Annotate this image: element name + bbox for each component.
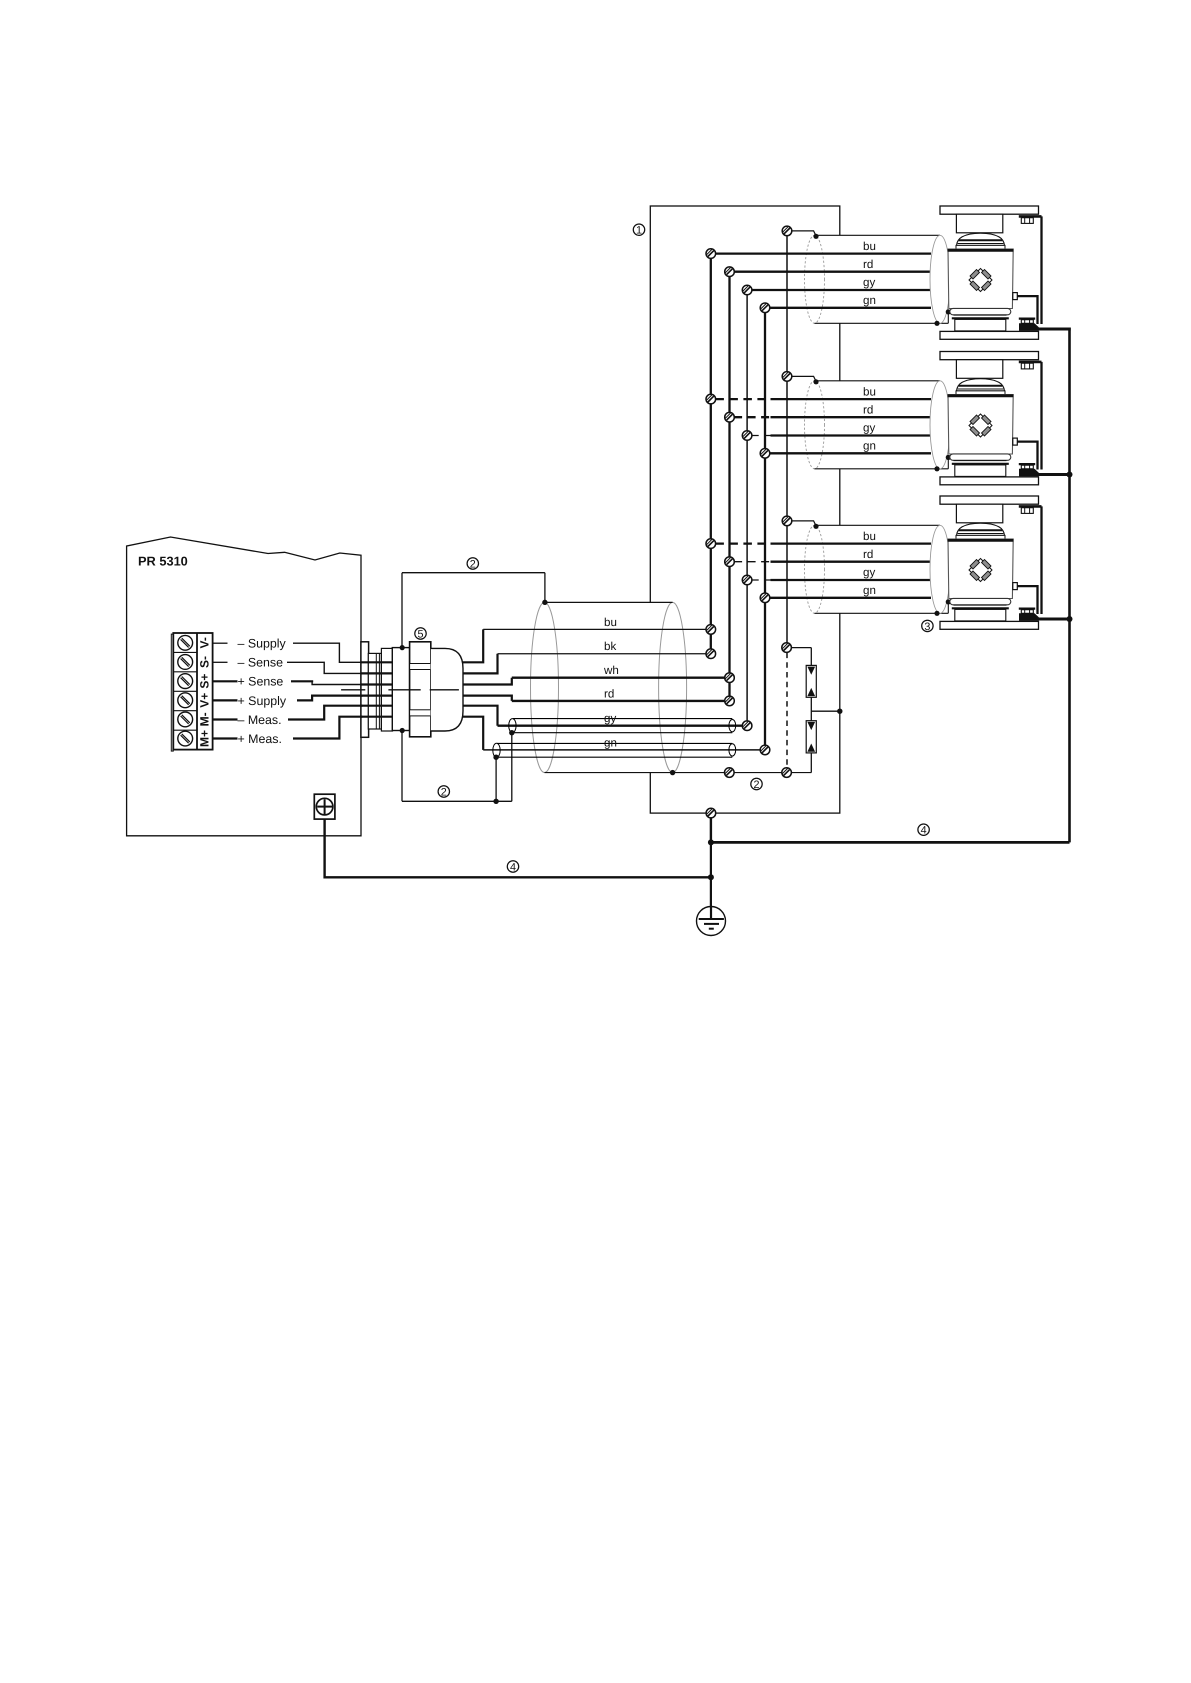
load cell dome (957, 379, 1005, 391)
svg-text:bu: bu (863, 530, 876, 543)
screen terminals (725, 768, 735, 778)
load cell upper block (956, 214, 1002, 233)
gland centerline (341, 689, 365, 691)
cell 1 screen bond (792, 231, 816, 236)
svg-text:bk: bk (604, 640, 616, 653)
svg-text:– Supply: – Supply (238, 637, 287, 651)
cable right end cap (930, 381, 950, 469)
svg-text:PR 5310: PR 5310 (138, 554, 188, 569)
svg-text:bu: bu (604, 616, 617, 629)
load cell dome (957, 233, 1005, 245)
svg-text:rd: rd (863, 403, 873, 416)
PE bus to load cells (711, 841, 1070, 844)
cable screen bond to cell body (947, 602, 949, 613)
svg-text:2: 2 (470, 558, 476, 570)
cable to cell (805, 235, 950, 323)
strain gauge symbol (969, 559, 992, 582)
ground strap from top bolt (1040, 216, 1042, 324)
svg-text:5: 5 (417, 628, 423, 640)
item label 4 left (507, 861, 518, 874)
bus V+ (wh/rd) (728, 272, 730, 701)
junction box rect 1 (650, 206, 840, 813)
top mounting bolt (1019, 361, 1042, 364)
cell 1 wire gn (769, 307, 931, 309)
svg-text:4: 4 (921, 825, 927, 837)
wire bk (– Sense) (214, 661, 228, 663)
strap from connector (1017, 442, 1037, 470)
load cell foot (950, 308, 1011, 314)
load cell top flange (940, 206, 1039, 214)
svg-text:gn: gn (863, 294, 876, 307)
svg-text:gn: gn (863, 584, 876, 597)
svg-text:S+: S+ (198, 674, 212, 689)
svg-text:3: 3 (924, 621, 930, 633)
svg-text:bu: bu (863, 385, 876, 398)
bolt ground pad (1019, 323, 1039, 331)
svg-text:+ Sense: + Sense (238, 675, 284, 689)
cell connector stub (1013, 438, 1018, 445)
item label 4 right (918, 824, 929, 837)
svg-text:– Sense: – Sense (238, 656, 284, 670)
cell earth lead (1036, 618, 1071, 621)
wire rd (+ Supply) (214, 699, 238, 701)
earth lead down (710, 842, 712, 912)
top mounting bolt (1019, 215, 1042, 218)
top mounting bolt (1019, 505, 1042, 508)
svg-text:1: 1 (636, 225, 642, 237)
terminal block (171, 634, 173, 751)
cable screen bond to cell body (947, 457, 949, 468)
svg-text:bu: bu (863, 240, 876, 253)
strap from connector (1017, 586, 1037, 614)
gland flange (361, 642, 369, 738)
main cable sheath (530, 602, 686, 772)
cell earth lead (1036, 328, 1071, 331)
svg-text:wh: wh (603, 664, 619, 677)
load cell bottom flange (940, 331, 1039, 339)
load cell dome (957, 523, 1005, 535)
junction box ground terminal (706, 808, 716, 818)
svg-text:gy: gy (604, 712, 616, 725)
cell 3 wire gn (769, 597, 931, 599)
cable to cell (805, 381, 950, 469)
arrester link to box wall (810, 697, 812, 720)
load cell body (948, 395, 1013, 455)
svg-text:V-: V- (198, 637, 212, 648)
svg-text:gy: gy (863, 276, 875, 289)
ground strap from top bolt (1040, 506, 1042, 614)
svg-text:gy: gy (863, 422, 875, 435)
cell 1 terminals (706, 249, 716, 259)
screen bus (786, 231, 788, 648)
load cell 2 group (805, 352, 1039, 469)
gy screen tube (513, 718, 732, 720)
strain gauge symbol (969, 414, 992, 437)
load cell body (948, 249, 1013, 309)
gland dome body (431, 648, 463, 731)
cable screen bond to cell body (947, 312, 949, 323)
load cell bottom flange (940, 621, 1039, 629)
cell 2 screen bond (792, 376, 816, 381)
svg-text:4: 4 (510, 861, 516, 873)
wire gy (– Meas.) (214, 718, 238, 720)
load cell foot (950, 454, 1011, 460)
item label 3 (922, 620, 933, 633)
svg-text:gn: gn (604, 736, 617, 749)
item label 2 top (467, 558, 478, 571)
cell 1 wire rd (734, 271, 932, 273)
main cable screen to terminals (545, 772, 812, 774)
protective earth symbol (697, 907, 726, 936)
bottom mounting bolt (1019, 463, 1035, 465)
gland nut (410, 642, 431, 737)
cell 3 wire bu (715, 542, 770, 544)
equipotential bracket 2 at cable gland (401, 573, 403, 802)
gn tube drain wire (495, 757, 497, 801)
PR 5310 device outline (127, 537, 361, 836)
svg-text:rd: rd (863, 258, 873, 271)
bus V- (bu/bk) (710, 254, 712, 654)
surge arrester A1 (792, 647, 812, 649)
cell 3 terminals (706, 539, 716, 549)
cell 1 wire bu (715, 252, 931, 254)
svg-text:rd: rd (863, 548, 873, 561)
cell connector stub (1013, 583, 1018, 590)
svg-text:M+: M+ (198, 730, 212, 747)
load cell 1 group (805, 206, 1039, 323)
surge arrester A2 (806, 721, 816, 753)
load cell 3 group (805, 496, 1039, 613)
ground strap from top bolt (1040, 362, 1042, 470)
svg-text:2: 2 (753, 779, 759, 791)
bottom mounting bolt (1019, 607, 1035, 609)
item label 2 right (751, 778, 762, 791)
svg-text:S-: S- (198, 656, 212, 668)
cell connector stub (1013, 293, 1018, 300)
svg-text:gy: gy (863, 566, 875, 579)
svg-text:– Meas.: – Meas. (238, 713, 282, 727)
gland spool (368, 653, 381, 729)
cell 2 wire gy (752, 435, 771, 437)
bolt ground pad (1019, 469, 1039, 477)
item label 1 (633, 224, 644, 237)
grounding screw on PR5310 (314, 794, 335, 819)
wire wh (+ Sense) (214, 680, 238, 682)
cell 2 wire bu (715, 398, 770, 400)
strain gauge symbol (969, 269, 992, 292)
load cell body (948, 539, 1013, 599)
cable to cell (805, 525, 950, 613)
strap from connector (1017, 296, 1037, 324)
bus M+ (gn) (764, 308, 766, 750)
item label 5 (415, 628, 426, 641)
svg-text:V+: V+ (198, 693, 212, 708)
load cell upper block (956, 360, 1002, 379)
load cell bottom flange (940, 477, 1039, 485)
cable right end cap (930, 235, 950, 323)
wire gn (+ Meas.) (214, 737, 238, 739)
load cell top flange (940, 352, 1039, 360)
bolt ground pad (1019, 613, 1039, 621)
bonding lead from PR5310 (325, 819, 711, 877)
svg-text:2: 2 (441, 786, 447, 798)
cell 3 wire gy (752, 579, 771, 581)
cell 1 wire gy (751, 289, 931, 291)
load cell upper block (956, 504, 1002, 523)
cell 3 screen bond (792, 521, 816, 526)
cell 2 terminals (706, 394, 716, 404)
load cell foot (950, 598, 1011, 604)
cell 2 wire rd (734, 416, 770, 418)
wire bu (– Supply) (214, 642, 228, 644)
svg-text:rd: rd (604, 687, 614, 700)
cell 3 wire rd (734, 561, 770, 563)
svg-text:gn: gn (863, 440, 876, 453)
gy tube drain wire (511, 733, 513, 802)
bottom mounting bolt (1019, 318, 1035, 320)
svg-text:+ Meas.: + Meas. (238, 732, 282, 746)
terminal screws (178, 635, 193, 650)
svg-text:M-: M- (198, 712, 212, 726)
bus M- (gy) (746, 290, 748, 726)
cable right end cap (930, 525, 950, 613)
cell 2 wire gn (769, 452, 931, 454)
gn screen tube (497, 742, 732, 744)
junction terminals of main cable (706, 625, 716, 635)
cable gland item 5: collar (392, 648, 431, 731)
cell earth lead (1036, 473, 1071, 476)
load cell top flange (940, 496, 1039, 504)
gland washer (381, 648, 392, 731)
item label 2 bottom (438, 786, 449, 799)
svg-text:+ Supply: + Supply (238, 694, 287, 708)
